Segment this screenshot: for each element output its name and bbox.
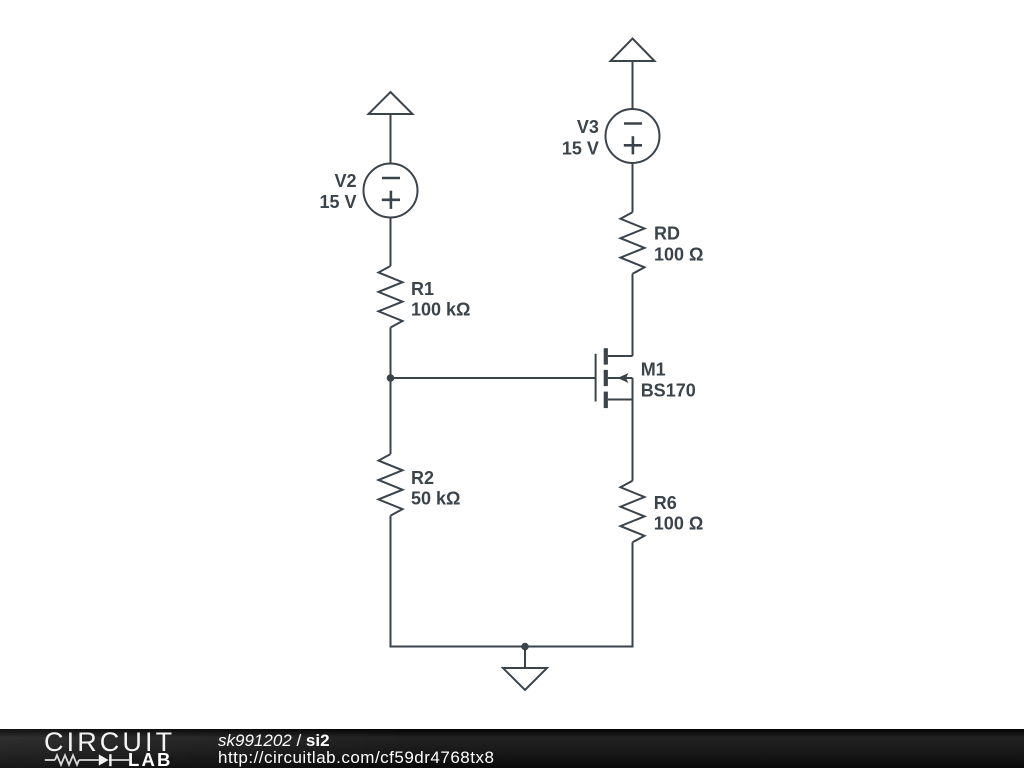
value label V3 15 V <box>562 138 599 158</box>
svg-text:RD: RD <box>654 224 680 244</box>
M1 drain horizontal wire <box>608 355 633 357</box>
ground symbol triangle <box>503 668 547 690</box>
ground rail wire <box>390 646 634 648</box>
resistor RD zigzag <box>621 212 645 274</box>
ground junction dot <box>521 643 529 651</box>
power flag VDD (V2 branch) <box>369 92 413 114</box>
wire VDD flag to V2 top <box>390 114 392 164</box>
logo diode triangle <box>99 754 109 765</box>
label V2 <box>334 171 356 191</box>
CircuitLab logo word CIRCUIT <box>44 729 175 756</box>
M1 channel top bar (drain contact) <box>604 348 608 364</box>
svg-text:R2: R2 <box>411 468 434 488</box>
power flag VDD (V3 branch) <box>611 39 655 62</box>
logo wire left <box>45 759 55 761</box>
resistor R2 zigzag <box>379 454 403 516</box>
resistor R1 zigzag <box>379 266 403 328</box>
logo resistor zigzag <box>55 755 79 765</box>
svg-text:50 kΩ: 50 kΩ <box>411 489 460 509</box>
svg-text:100 kΩ: 100 kΩ <box>411 300 470 320</box>
wire V2 bottom to R1 top <box>390 218 392 267</box>
M1 body-to-source vertical wire <box>632 378 634 400</box>
V3 plus sign <box>624 136 642 154</box>
node A junction dot <box>387 374 395 382</box>
footer url text <box>218 749 494 766</box>
wire R6 bottom to ground rail <box>632 542 634 647</box>
M1 gate line <box>595 354 597 402</box>
value label V2 15 V <box>319 192 356 212</box>
label M1 <box>641 359 666 379</box>
label R2 <box>411 468 434 488</box>
M1 body horizontal wire <box>608 377 633 379</box>
M1 channel bottom bar (source contact) <box>604 392 608 409</box>
wire V3 bottom to RD top <box>632 163 634 212</box>
logo diode cathode bar <box>109 754 111 766</box>
wire R1 bottom to node A <box>390 328 392 379</box>
wire M1 source to R6 top <box>632 400 634 481</box>
wire node A to M1 gate <box>391 377 596 379</box>
value label R2 50 kOhm <box>411 489 460 509</box>
footer bar <box>0 729 1024 768</box>
svg-text:BS170: BS170 <box>641 380 696 400</box>
value label R6 100 Ohm <box>654 514 703 534</box>
CircuitLab logo word LAB <box>128 751 173 768</box>
value label R1 100 kOhm <box>411 300 470 320</box>
wire node A to R2 top <box>390 378 392 454</box>
resistor R6 zigzag <box>621 481 645 543</box>
value label M1 BS170 <box>641 380 696 400</box>
M1 source horizontal wire <box>608 399 633 401</box>
svg-text:R6: R6 <box>654 493 677 513</box>
wire VDD flag to V3 top <box>632 61 634 110</box>
svg-text:15 V: 15 V <box>562 138 599 158</box>
label RD <box>654 224 680 244</box>
logo wire right <box>109 759 129 761</box>
voltage source V3 circle <box>606 109 660 163</box>
label R6 <box>654 493 677 513</box>
svg-text:M1: M1 <box>641 359 666 379</box>
svg-text:15 V: 15 V <box>319 192 356 212</box>
svg-text:V2: V2 <box>334 171 356 191</box>
M1 channel middle bar (body contact) <box>604 370 608 386</box>
svg-text:100 Ω: 100 Ω <box>654 514 703 534</box>
ground stub wire <box>524 647 526 669</box>
logo wire middle <box>79 759 99 761</box>
label V3 <box>577 117 599 137</box>
label R1 <box>411 279 434 299</box>
footer title text <box>218 732 330 749</box>
V2 minus sign <box>382 177 400 180</box>
V3 minus sign <box>624 122 642 125</box>
svg-text:100 Ω: 100 Ω <box>654 245 703 265</box>
wire R2 bottom to ground rail <box>390 516 392 648</box>
voltage source V2 circle <box>364 164 418 218</box>
M1 body arrow <box>618 373 629 383</box>
svg-text:V3: V3 <box>577 117 599 137</box>
CircuitLab logo symbol line (resistor + diode) <box>40 750 140 768</box>
svg-text:R1: R1 <box>411 279 434 299</box>
wire RD bottom to M1 drain <box>632 274 634 356</box>
value label RD 100 Ohm <box>654 245 703 265</box>
V2 plus sign <box>382 191 400 209</box>
